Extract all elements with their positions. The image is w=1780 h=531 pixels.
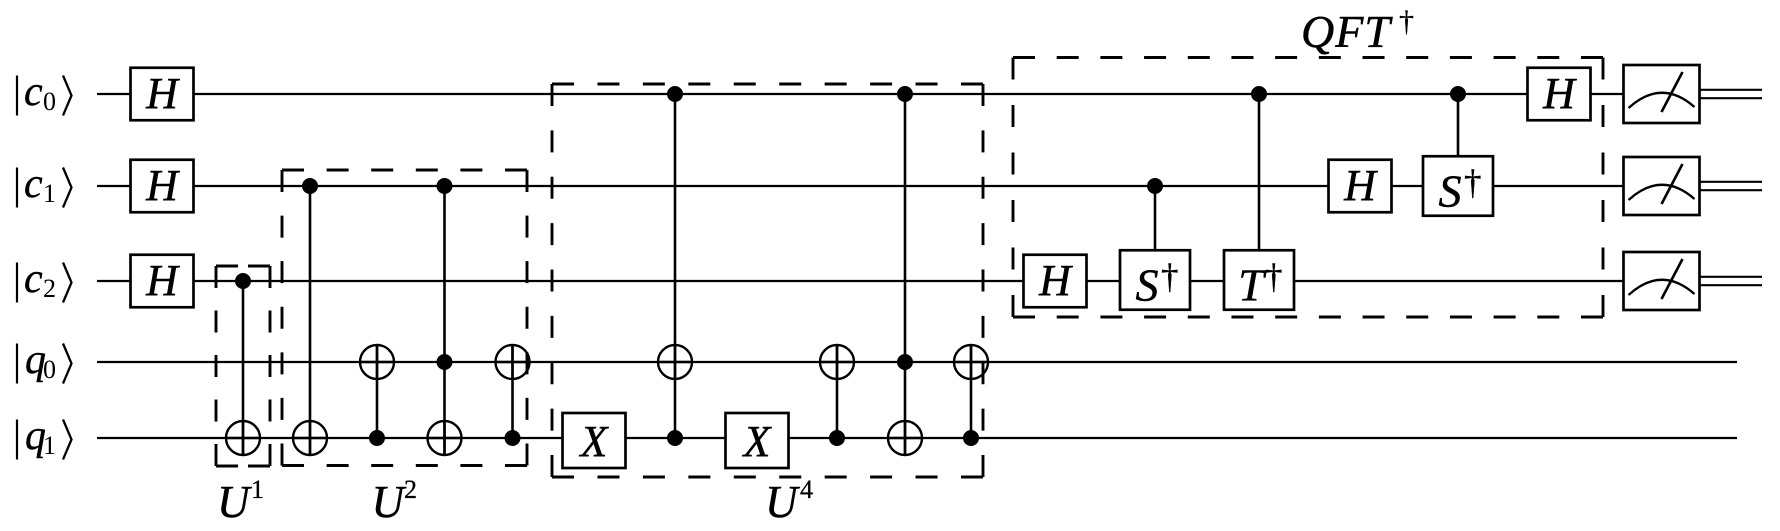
svg-text:2: 2 (43, 274, 56, 303)
label U^2 (372, 475, 418, 527)
control line QFT CT c0-c2 (1258, 94, 1261, 281)
svg-text:H: H (145, 69, 180, 118)
target U2 col1 on q1 (293, 421, 327, 455)
svg-text:X: X (579, 417, 610, 466)
svg-text:0: 0 (43, 87, 56, 116)
svg-text:S: S (1136, 260, 1159, 311)
double wire c1 (1699, 182, 1762, 190)
control dot U4 col5 on c0 (897, 86, 913, 102)
label QFT-dagger (1301, 5, 1414, 57)
gate H on c0 (131, 68, 194, 121)
gate X first on q1 (563, 413, 626, 468)
control dot QFT CS on c1 (1147, 178, 1163, 194)
svg-text:1: 1 (43, 431, 56, 460)
control line QFT CS c1-c2 (1154, 186, 1157, 281)
gate H on c2 (131, 255, 194, 308)
gate H on c1 (131, 160, 194, 213)
meter on c2 (1624, 252, 1700, 310)
gate S-dagger on c1 (1423, 156, 1493, 216)
control dot U4 col2 on q1 (667, 430, 683, 446)
svg-text:H: H (1343, 161, 1378, 210)
target U4 col4 on q0 (820, 345, 854, 379)
svg-text:X: X (742, 417, 773, 466)
svg-text:S: S (1439, 166, 1462, 217)
wire c0 (97, 93, 1624, 95)
svg-text:H: H (145, 161, 180, 210)
gate X second on q1 (726, 413, 789, 468)
control dot U1 on c2 (235, 273, 251, 289)
gate H QFT on c1 (1329, 160, 1392, 213)
control line U2 CNOT q1-q0 second (511, 345, 514, 438)
gate H QFT on c2 (1024, 255, 1087, 308)
svg-text:QFT: QFT (1301, 6, 1393, 57)
control line U1 CNOT c2-q1 (242, 281, 245, 455)
control line U4 CNOT q1-q0 second (970, 345, 973, 438)
svg-text:U: U (217, 477, 252, 527)
svg-text:†: † (1399, 5, 1414, 38)
dashed box U4 (552, 84, 983, 477)
control dot U4 col2 on c0 (667, 86, 683, 102)
target U1 on q1 (226, 421, 260, 455)
control dot QFT CT on c0 (1251, 86, 1267, 102)
control line QFT CS c0-c1 (1457, 94, 1460, 186)
control line U2 CNOT c1-q1 (309, 186, 312, 455)
wire q1 (97, 437, 1737, 439)
svg-text:T: T (1238, 260, 1267, 311)
svg-text:2: 2 (404, 475, 417, 504)
svg-text:U: U (372, 477, 407, 527)
gate T-dagger on c2 (1224, 250, 1294, 310)
double wire c0 (1699, 90, 1762, 98)
control dot U4 col5 on q0 (897, 354, 913, 370)
control dot U2 col4 on q1 (505, 430, 521, 446)
qubit label |q1&gt; (17, 413, 72, 460)
target U2 col3 on q1 (428, 421, 462, 455)
control dot U2 col3 on c1 (437, 178, 453, 194)
svg-text:†: † (1161, 257, 1179, 296)
target U4 col2 on q0 (658, 345, 692, 379)
wire q0 (97, 361, 1737, 363)
wire c2 (97, 280, 1624, 282)
svg-text:U: U (765, 477, 800, 527)
qubit label |q0&gt; (17, 337, 72, 384)
qubit label |c1&gt; (17, 161, 72, 208)
label U^4 (765, 475, 813, 527)
target U2 col2 on q0 (360, 345, 394, 379)
svg-text:4: 4 (800, 475, 813, 504)
meter on c0 (1624, 65, 1700, 123)
qubit label |c2&gt; (17, 256, 72, 303)
control line U4 Toffoli c0,q0-q1 (904, 94, 907, 455)
svg-text:c: c (24, 69, 43, 115)
control line U4 Toffoli c0,q1-q0 (674, 94, 677, 438)
control dot U4 col6 on q1 (963, 430, 979, 446)
svg-text:c: c (24, 256, 43, 302)
svg-text:H: H (1542, 69, 1577, 118)
svg-text:1: 1 (251, 475, 264, 504)
control dot QFT CS2 on c0 (1450, 86, 1466, 102)
svg-text:H: H (145, 256, 180, 305)
svg-text:0: 0 (43, 355, 56, 384)
svg-text:†: † (1265, 257, 1283, 296)
dashed box QFT-dagger (1013, 58, 1603, 318)
double wire c2 (1699, 277, 1762, 285)
svg-text:†: † (1464, 163, 1482, 202)
target U2 col4 on q0 (496, 345, 530, 379)
control dot U2 col3 on q0 (437, 354, 453, 370)
control line U2 Toffoli c1,q0-q1 (443, 186, 446, 455)
qubit label |c0&gt; (17, 69, 72, 116)
control dot U4 col4 on q1 (829, 430, 845, 446)
wire c1 (97, 185, 1624, 187)
control dot U2 col1 on c1 (302, 178, 318, 194)
control line U2 CNOT q1-q0 (376, 345, 379, 438)
svg-text:1: 1 (43, 179, 56, 208)
meter on c1 (1624, 157, 1700, 215)
dashed box U2 (282, 170, 527, 466)
control line U4 CNOT q1-q0 (836, 345, 839, 438)
control dot U2 col2 on q1 (369, 430, 385, 446)
target U4 col6 on q0 (954, 345, 988, 379)
label U^1 (217, 475, 264, 527)
svg-text:c: c (24, 161, 43, 207)
gate H QFT on c0 (1528, 68, 1591, 121)
svg-text:H: H (1038, 256, 1073, 305)
target U4 col5 on q1 (888, 421, 922, 455)
gate S-dagger on c2 (1120, 250, 1190, 310)
dashed box U1 (216, 266, 270, 466)
